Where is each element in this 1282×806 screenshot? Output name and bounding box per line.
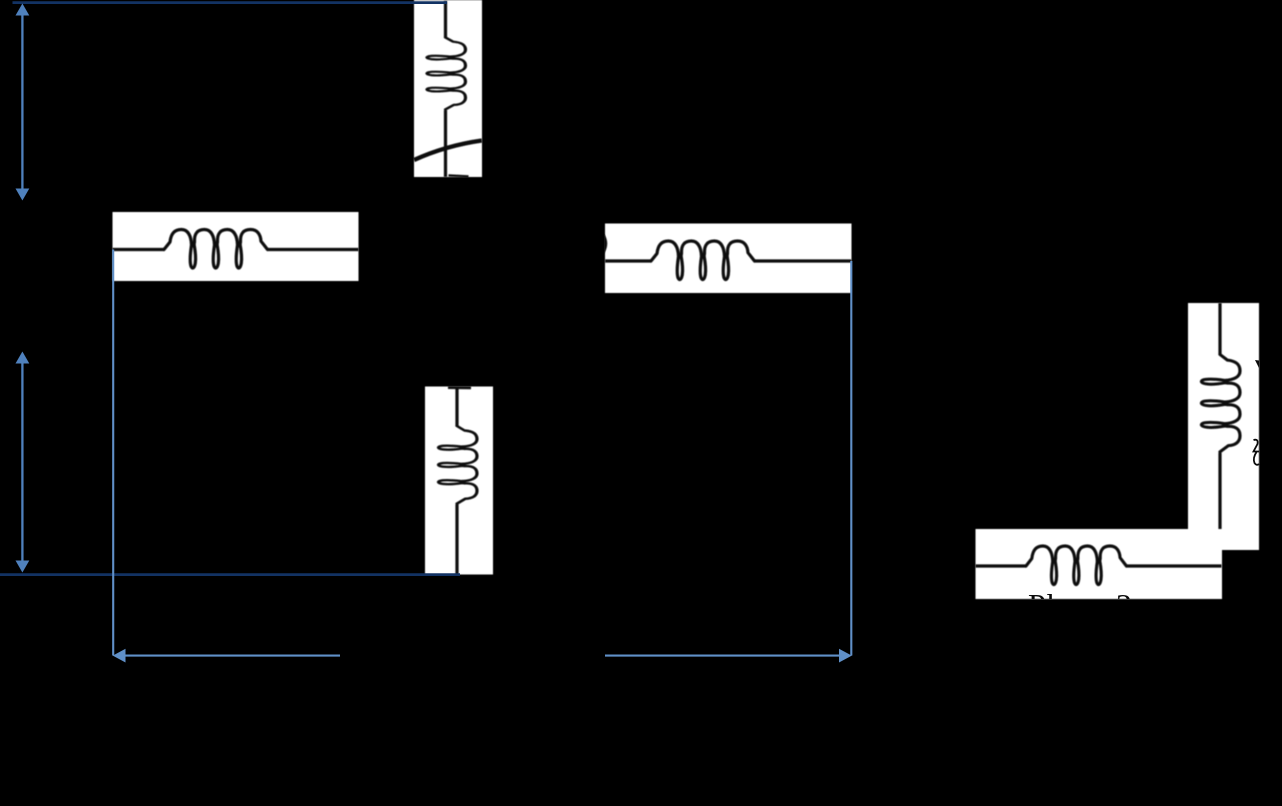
inductor L4 coil (bottom vertical winding) (438, 426, 477, 504)
wire L4 top lead (455, 387, 458, 427)
inductor L2 coil (left horizontal winding) (164, 230, 268, 269)
extension line from left winding (112, 250, 114, 656)
wire L1 top lead (444, 1, 447, 38)
dimension arrow A (vertical double-headed, top left) (16, 4, 30, 201)
winding picture box: phase 1 bottom (vertical) (425, 387, 493, 575)
wire L3 right lead (755, 259, 851, 262)
stator core arc fragment (top box) (414, 141, 482, 161)
stray mark bottom of top box (449, 175, 469, 176)
wire L6 left lead (976, 564, 1027, 567)
navy reference line top (13, 1, 448, 4)
wire L1 bottom lead (444, 110, 447, 177)
dimension arrow B (vertical double-headed, mid left) (16, 352, 30, 573)
wire L2 left lead (113, 248, 165, 251)
clipped flux label glyphs on phase 2 vertical box (1254, 360, 1260, 465)
wire L5 bottom lead (1218, 453, 1221, 529)
winding picture box: phase 3 right (horizontal) (605, 224, 852, 294)
stray mark top of bottom box (448, 386, 471, 389)
wire L6 right lead (1127, 564, 1222, 567)
winding picture box: phase 2 vertical (1188, 303, 1259, 550)
winding picture box: phase 2 horizontal (976, 529, 1223, 599)
wire L2 right lead (268, 248, 359, 251)
wire L3 left lead (605, 259, 651, 262)
navy reference line bottom (0, 573, 460, 576)
extension line from right winding (850, 261, 852, 656)
clipped glyph at left edge of right box (604, 234, 607, 254)
horizontal dimension line left segment with arrowhead (113, 649, 340, 663)
wire L5 top lead (1218, 303, 1221, 355)
inductor L5 coil (phase 2 vertical winding) (1201, 355, 1240, 452)
wire L4 bottom lead (455, 505, 458, 575)
inductor L6 coil (phase 2 horizontal winding) (1026, 546, 1126, 585)
horizontal dimension line right segment with arrowhead (605, 649, 852, 663)
inductor L3 coil (right horizontal winding) (651, 241, 755, 280)
winding picture box: phase 1 top (vertical) (414, 0, 482, 177)
label: Phase 2 (clipped by box bottom) (1028, 587, 1133, 623)
winding picture box: phase 3 left (horizontal) (113, 212, 359, 281)
inductor L1 coil (top vertical winding) (427, 38, 466, 110)
